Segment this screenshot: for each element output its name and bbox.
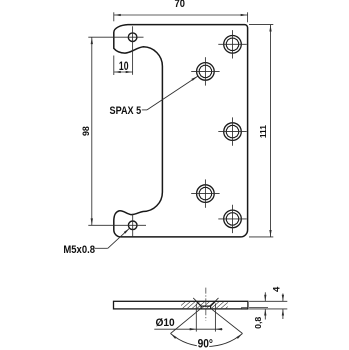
svg-text:SPAX 5: SPAX 5 — [110, 105, 142, 117]
svg-text:70: 70 — [175, 0, 185, 10]
svg-text:111: 111 — [258, 125, 268, 138]
svg-text:4: 4 — [271, 286, 282, 292]
svg-text:M5x0.8: M5x0.8 — [63, 244, 95, 256]
svg-text:90°: 90° — [198, 337, 214, 350]
svg-text:98: 98 — [81, 126, 91, 136]
svg-text:Ø10: Ø10 — [156, 317, 175, 329]
svg-text:0,8: 0,8 — [253, 317, 263, 329]
svg-text:10: 10 — [119, 61, 129, 73]
